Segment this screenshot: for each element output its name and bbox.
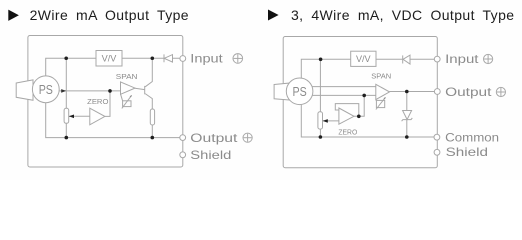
svg-text:Input: Input [445, 52, 479, 66]
svg-text:ZERO: ZERO [338, 127, 357, 136]
svg-text:Output: Output [445, 85, 492, 99]
svg-text:Shield: Shield [190, 148, 231, 162]
svg-text:PS: PS [39, 82, 53, 97]
svg-text:ZERO: ZERO [87, 97, 108, 106]
svg-text:PS: PS [293, 84, 307, 99]
svg-text:3, 4Wire mA, VDC Output Type: 3, 4Wire mA, VDC Output Type [291, 7, 514, 23]
svg-text:Input: Input [190, 52, 223, 66]
svg-text:SPAN: SPAN [116, 72, 138, 81]
svg-text:Shield: Shield [446, 145, 488, 159]
svg-text:SPAN: SPAN [371, 72, 391, 81]
svg-text:V/V: V/V [102, 54, 117, 64]
svg-text:Common: Common [445, 130, 499, 144]
svg-text:Output: Output [190, 131, 238, 145]
svg-text:V/V: V/V [356, 54, 371, 64]
svg-text:2Wire mA Output Type: 2Wire mA Output Type [30, 7, 189, 23]
